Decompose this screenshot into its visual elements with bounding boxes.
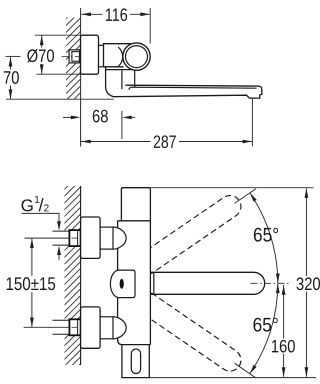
G1/2 lower arrow — [58, 253, 60, 260]
wall face line (top view) — [80, 8, 82, 147]
extension line at body front x=150 — [149, 8, 151, 44]
dimension 287 — [81, 141, 252, 143]
bottom slot (mousseur window) — [131, 349, 140, 374]
sensor IR dot — [120, 279, 124, 289]
holder vertical joints — [122, 70, 135, 90]
dimension diameter 70 — [35, 35, 80, 74]
lower check-valve dome — [113, 317, 126, 339]
swivel angle arc lower — [250, 283, 278, 373]
crescent: block rounded cap behind sensor circle — [118, 47, 123, 67]
escutcheon (top view) — [81, 35, 99, 74]
wall hatching (top view) — [64, 0, 82, 123]
dashed spout swiveled down 65deg — [139, 293, 245, 375]
extension line top (320) — [150, 187, 313, 189]
sensor head outer circle — [123, 43, 150, 70]
dimension 70 left — [6, 55, 21, 57]
union nut top (front view) — [69, 230, 80, 246]
dimension 68 — [63, 111, 135, 139]
angle leg upper — [235, 189, 257, 204]
inlet pipe top (G1/2 tailpiece) — [53, 231, 70, 245]
wall hatching (front view) — [62, 165, 82, 384]
lower connection neck — [100, 317, 113, 339]
angle leg lower — [235, 363, 257, 378]
wall face line (front view) — [80, 186, 82, 365]
faucet column outline — [118, 188, 151, 378]
label 65deg lower — [253, 318, 277, 332]
extension line at spout tip — [251, 98, 253, 146]
sensor knob — [110, 270, 135, 298]
dimension 116 — [81, 13, 150, 15]
dimension 150 +-15 — [24, 238, 70, 327]
dashed spout swiveled up 65deg — [139, 191, 245, 273]
holder top line — [106, 69, 136, 71]
inlet pipe bottom — [53, 320, 70, 334]
label 65deg upper — [254, 228, 278, 242]
swivel angle arc upper — [250, 193, 278, 283]
extension line bottom (320/160) — [149, 377, 316, 379]
sensor head inner circle — [126, 46, 148, 68]
spout secondary top line — [129, 87, 257, 90]
spout (front view, solid) — [150, 272, 264, 294]
union nut (top view) — [69, 50, 79, 63]
upper check-valve dome — [113, 227, 126, 249]
dimension 160 — [283, 285, 285, 377]
spout holder under body — [106, 67, 262, 98]
spout collar line — [153, 272, 155, 294]
union nut bottom (front view) — [69, 319, 80, 335]
upper connection neck — [100, 227, 113, 249]
escutcheon top (front view) — [81, 217, 101, 258]
union center line (top view) — [62, 55, 85, 57]
G1/2 leader — [22, 213, 60, 222]
escutcheon bottom (front view) — [81, 307, 101, 348]
extension line under body y=99 — [6, 98, 114, 100]
valve block (top view) — [104, 44, 132, 67]
spout center line (dash-dot) — [251, 282, 289, 284]
dimension 320 — [305, 188, 307, 376]
neck lines escutcheon-to-block — [99, 45, 105, 67]
label G 1/2 — [22, 199, 33, 211]
